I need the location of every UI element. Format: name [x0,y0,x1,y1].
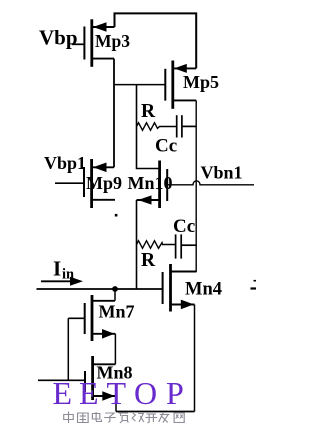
transistor Mp9 [55,159,115,208]
svg-text:T: T [107,375,127,411]
svg-text:Mn7: Mn7 [99,302,135,322]
kai [147,413,157,415]
transistor Mn7 [68,295,115,341]
capacitor Cc lower [176,234,197,258]
wire Mn7 source to Mn8 drain [114,334,116,365]
transistor Mn8 [38,356,116,401]
resistor R upper [137,123,177,131]
wire VDD top rail [115,13,197,68]
wire Mn4 source down to ground rail [194,305,196,412]
zi [105,413,114,423]
svg-text:P: P [166,375,184,411]
svg-text:Mp9: Mp9 [86,173,122,193]
svg-text:R: R [141,250,156,271]
svg-text:Vbp: Vbp [39,25,78,49]
dian [96,412,101,422]
capacitor Cc upper [177,115,197,137]
transistor Mn10 [137,161,168,209]
wire rail Mp3 drain to Mp9 source [113,59,115,168]
wire right edge stub upper [254,280,257,282]
transistor Mn4 [163,264,197,312]
svg-text:Mn10: Mn10 [128,173,173,193]
node tick on rail [115,214,118,217]
arrow Iin annotation [41,277,83,286]
ding [118,412,128,414]
wire Mn8 source to ground rail [115,396,117,412]
svg-text:E: E [79,375,99,411]
zhong [67,412,69,424]
svg-text:R: R [141,101,156,122]
wire rail node A down to Mn10 drain [137,85,159,169]
ji [132,413,135,421]
svg-text:Mp5: Mp5 [183,72,219,92]
wire Mp5 gate wire [114,84,165,86]
svg-text:Mn4: Mn4 [185,280,222,300]
svg-text:E: E [53,375,73,411]
svg-text:Cc: Cc [173,216,195,237]
guo [78,413,89,423]
svg-text:Mp3: Mp3 [95,31,130,51]
watermark Chinese banner [64,412,184,424]
svg-text:Cc: Cc [155,136,177,157]
fa [160,414,170,416]
wire rail Mp5 drain down to Mn4 drain [171,100,197,271]
transistor Mp3 [72,19,115,67]
wire input node down to Mn7 drain [114,289,116,301]
svg-text:Vbn1: Vbn1 [201,163,243,183]
wang [174,413,184,423]
wire input node wire to Mn4 gate [37,288,163,290]
wire ground rail [116,411,195,413]
node junction dot [112,286,118,292]
resistor R lower [137,241,176,249]
svg-text:I: I [53,257,61,281]
svg-text:Vbp1: Vbp1 [44,153,86,173]
transistor Mp5 [165,61,196,109]
wire Mn7 gate to Mn8 gate tie [67,318,69,380]
wire right edge stub lower [251,287,257,289]
svg-text:O: O [134,375,157,411]
watermark EETOP [53,375,184,411]
wire Mn10 gate to Vbn1 with hop over rail [167,181,254,185]
wire rail Mn10 source down to input node [136,200,138,289]
